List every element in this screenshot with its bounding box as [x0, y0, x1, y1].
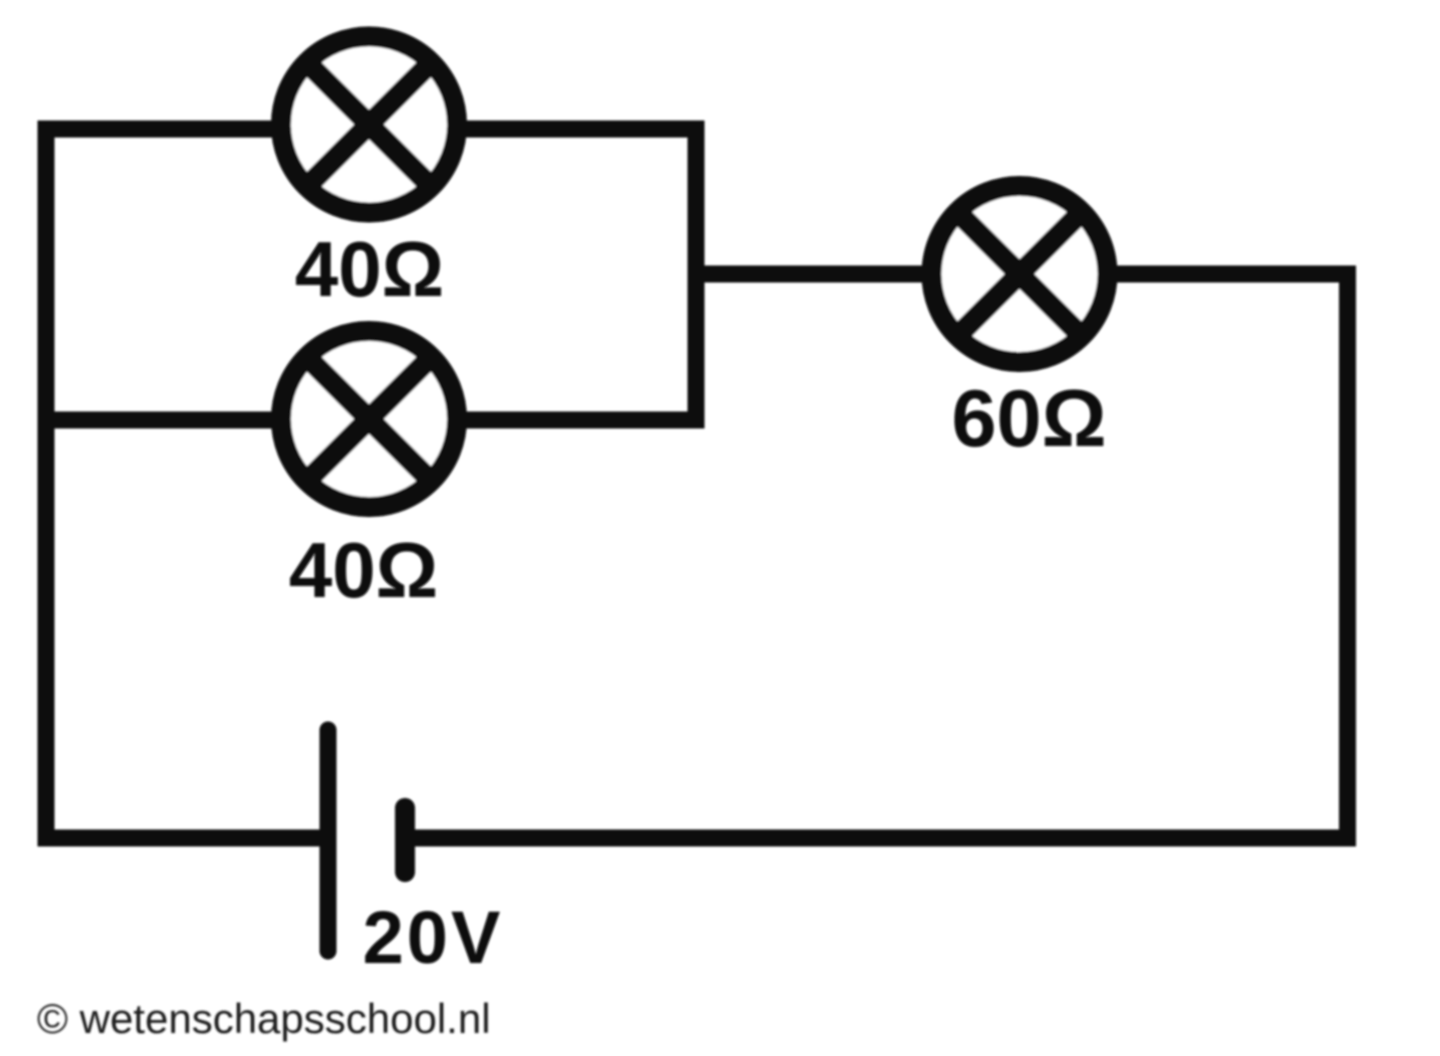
wire: right connector vertical (joins L1 and L2 branches)	[688, 121, 705, 429]
lamp L2 (40 ohm, middle branch)	[281, 331, 457, 507]
svg-text:60Ω: 60Ω	[951, 374, 1106, 464]
battery B1: long positive plate	[320, 730, 337, 951]
lamp L3 (60 ohm, series)	[932, 186, 1108, 362]
wire: middle branch horizontal (lamp L2 branch)	[38, 412, 705, 429]
svg-text:20V: 20V	[363, 896, 504, 979]
wire: top branch horizontal (lamp L1 branch)	[38, 121, 705, 138]
svg-text:40Ω: 40Ω	[295, 225, 444, 313]
svg-text:© wetenschapsschool.nl: © wetenschapsschool.nl	[37, 995, 491, 1042]
wire: right vertical	[1339, 266, 1356, 847]
wire: series wire to lamp L3	[696, 266, 1356, 283]
wire: left vertical	[38, 121, 55, 847]
wire: bottom left (to battery positive plate)	[38, 830, 331, 847]
svg-text:40Ω: 40Ω	[289, 526, 438, 614]
lamp L1 (40 ohm, top branch)	[281, 37, 457, 213]
wire: bottom right (from battery negative plate)	[403, 830, 1356, 847]
battery B1: short negative plate	[395, 808, 415, 872]
